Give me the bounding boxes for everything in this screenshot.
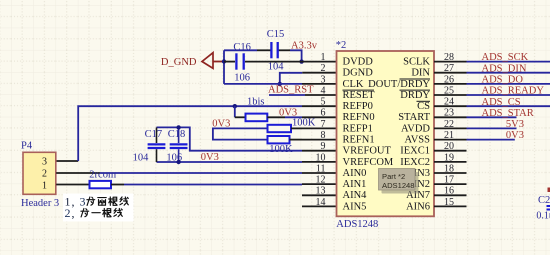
note white background (63, 194, 134, 222)
svg-text:ADS_CS: ADS_CS (482, 97, 521, 108)
svg-text:*2: *2 (336, 40, 347, 51)
svg-text:100K: 100K (292, 117, 316, 128)
svg-text:3: 3 (42, 156, 47, 167)
wire REFP0 net (pin5 to P4 pin3) (56, 160, 78, 162)
svg-text:2: 2 (42, 168, 47, 179)
svg-text:104: 104 (133, 152, 150, 163)
svg-text:Header 3: Header 3 (21, 198, 59, 209)
note text line1 line2 (65, 195, 129, 209)
svg-text:VREFOUT: VREFOUT (343, 146, 392, 157)
svg-text:104: 104 (268, 61, 285, 72)
node junction C18 top (176, 125, 180, 129)
pin 8 REFN1 (321, 130, 375, 146)
svg-text:C17: C17 (145, 129, 163, 140)
svg-text:1: 1 (321, 52, 326, 63)
wire net 0V3 (467, 139, 515, 141)
wire pin 27 stub (434, 72, 467, 74)
svg-text:A3.3v: A3.3v (291, 41, 318, 52)
pin 19 IEXC2 (400, 152, 454, 168)
svg-text:SCLK: SCLK (403, 57, 430, 68)
ground D_GND (161, 53, 224, 69)
svg-text:ADS1248: ADS1248 (336, 219, 378, 230)
wire pin 23 stub (434, 116, 467, 118)
node junction row5 (233, 104, 237, 108)
wire pin 15 stub (434, 205, 467, 207)
svg-text:CLK: CLK (343, 79, 364, 90)
pin 12 AIN1 (316, 175, 367, 191)
pin 1 DVDD (321, 52, 374, 68)
svg-text:0V3: 0V3 (506, 130, 524, 141)
svg-text:CS: CS (417, 101, 430, 112)
svg-text:AVDD: AVDD (401, 123, 430, 134)
svg-text:AIN6: AIN6 (406, 201, 430, 212)
svg-text:DGND: DGND (343, 68, 374, 79)
svg-text:7: 7 (321, 119, 326, 130)
wire R 1bis to pin6 (285, 116, 302, 118)
pin 4 RESET (321, 85, 376, 101)
svg-text:REFP0: REFP0 (343, 101, 373, 112)
wire net 5V3 (467, 127, 517, 129)
pin 20 IEXC1 (400, 141, 454, 157)
wire net ADS_STAR (467, 116, 517, 118)
wire net ADS_DIN (467, 72, 550, 74)
svg-text:3: 3 (321, 74, 326, 85)
svg-text:START: START (398, 112, 430, 123)
svg-text:ADS_SCK: ADS_SCK (482, 52, 529, 63)
wire pin 21 stub (434, 139, 467, 141)
wire pin 22 stub (434, 127, 467, 129)
resistor R 100K (pin7) (268, 117, 316, 132)
pin 25 DRDY (400, 85, 455, 101)
svg-text:5V3: 5V3 (506, 119, 524, 130)
pin 16 AIN7 (406, 186, 454, 202)
wire pin 18 stub (434, 172, 467, 174)
svg-text:13: 13 (316, 186, 326, 197)
wire net ADS_DO (467, 83, 550, 85)
svg-text:2: 2 (321, 63, 326, 74)
pin 7 REFP1 (321, 119, 373, 135)
svg-text:2: 2 (65, 206, 71, 220)
pin 9 VREFOUT (321, 141, 392, 157)
svg-text:P4: P4 (21, 141, 33, 152)
wire pin 26 stub (434, 83, 467, 85)
svg-text:0V3: 0V3 (212, 118, 230, 129)
svg-text:14: 14 (316, 197, 326, 208)
wire pin2 DGND jog (280, 73, 303, 84)
wire VREFOUT (pin9) to caps top (157, 127, 303, 150)
svg-text:C16: C16 (233, 42, 251, 53)
svg-text:REFP1: REFP1 (343, 123, 373, 134)
wire pin4 RESET (269, 94, 305, 96)
op-amp U ADS1248 body (337, 51, 435, 216)
capacitor C17 (133, 127, 166, 163)
svg-text:1: 1 (42, 180, 47, 191)
svg-text:AIN0: AIN0 (343, 168, 367, 179)
svg-text:0.1u: 0.1u (536, 211, 550, 222)
capacitor C15 (267, 29, 285, 73)
node junction pin3 wire (278, 82, 282, 86)
svg-text:0V3: 0V3 (201, 152, 219, 163)
svg-text:ADS1248: ADS1248 (382, 181, 415, 190)
svg-text:11: 11 (316, 163, 326, 174)
pin 18 AIN3 (406, 163, 454, 179)
wire ground vertical (223, 50, 225, 84)
pin 5 REFP0 (321, 97, 373, 113)
pin 11 AIN0 (316, 163, 367, 179)
svg-text:8: 8 (321, 130, 326, 141)
wire VREFCOM 0V3 (pin10) caps bottom (157, 161, 303, 163)
wire pin 17 stub (434, 183, 467, 185)
svg-text:IEXC1: IEXC1 (400, 146, 430, 157)
pin 14 AIN5 (316, 197, 367, 213)
svg-text:VREFCOM: VREFCOM (343, 157, 394, 168)
wire pin13 stub (302, 194, 337, 196)
svg-text:10: 10 (316, 152, 326, 163)
connector P4 (21, 141, 59, 209)
svg-text:AVSS: AVSS (405, 135, 431, 146)
svg-text:6: 6 (321, 108, 326, 119)
svg-text:REFN1: REFN1 (343, 135, 375, 146)
pin 10 VREFCOM (316, 152, 394, 168)
pin 23 START (398, 108, 454, 124)
svg-text:C18: C18 (168, 129, 186, 140)
svg-text:100K: 100K (269, 144, 293, 155)
pin 6 REFN0 (321, 108, 375, 124)
svg-text:4: 4 (321, 85, 326, 96)
svg-text:ADS_DIN: ADS_DIN (482, 63, 527, 74)
svg-text:106: 106 (234, 73, 250, 84)
wire pin 20 stub (434, 150, 467, 152)
svg-text:AIN1: AIN1 (343, 179, 367, 190)
svg-text:9: 9 (321, 141, 326, 152)
tooltip Part *2 ADS1248 (379, 169, 419, 194)
svg-text:ADS_DO: ADS_DO (482, 75, 524, 86)
svg-text:D_GND: D_GND (161, 57, 197, 68)
svg-text:IEXC2: IEXC2 (400, 157, 430, 168)
svg-text:ADS_RST: ADS_RST (268, 85, 314, 96)
svg-text:2rcom: 2rcom (89, 170, 116, 181)
node ground junction (222, 59, 226, 63)
wire row5 to R 1bis (234, 106, 236, 117)
pin 27 DIN (411, 63, 454, 79)
svg-text:REFN0: REFN0 (343, 112, 375, 123)
wire net ADS_SCK (467, 61, 550, 63)
pin 26 DOUT/DRDY (368, 74, 454, 90)
resistor 1bis (235, 96, 285, 121)
pin 13 AIN4 (316, 186, 368, 202)
svg-text:1bis: 1bis (247, 96, 265, 107)
svg-text:ADS_STAR: ADS_STAR (482, 108, 534, 119)
wire pin14 stub (302, 205, 337, 207)
pin 17 AIN2 (406, 175, 454, 191)
pin 24 CS (417, 97, 455, 113)
svg-text:DIN: DIN (411, 68, 430, 79)
svg-text:C21: C21 (538, 195, 550, 206)
wire 2rcom to AIN1 (pin12) (124, 184, 302, 186)
node A3.3v junction (299, 59, 303, 63)
wire pin 25 stub (434, 94, 467, 96)
pin 15 AIN6 (406, 197, 454, 213)
wire pin 28 stub (434, 61, 467, 63)
pin 21 AVSS (405, 130, 455, 146)
wire net ADS_READY (467, 94, 550, 96)
pin 3 CLK (321, 74, 364, 90)
pin 28 SCLK (403, 52, 454, 68)
wire pin3 CLK to ground (224, 83, 302, 85)
pin 22 AVDD (401, 119, 454, 135)
wire pin 16 stub (434, 194, 467, 196)
pin 2 DGND (321, 63, 374, 79)
wire net ADS_CS (467, 105, 550, 107)
svg-text:C15: C15 (267, 29, 285, 40)
node junction C18 bottom (176, 160, 180, 164)
svg-text:AIN5: AIN5 (343, 201, 367, 212)
wire pin 19 stub (434, 161, 467, 163)
wire U-link pins 7-8 (213, 128, 268, 139)
svg-text:DVDD: DVDD (343, 57, 374, 68)
svg-text:,: , (72, 206, 75, 220)
svg-text:3: 3 (80, 195, 86, 209)
svg-text:AIN4: AIN4 (343, 190, 368, 201)
svg-text:ADS_READY: ADS_READY (482, 86, 545, 97)
wire pin 24 stub (434, 105, 467, 107)
svg-text:DRDY: DRDY (400, 90, 430, 101)
resistor R 100K (pin8) (268, 136, 303, 155)
wire P4 pin2 to AIN0 (pin11) (56, 172, 100, 174)
svg-text:DOUT/DRDY: DOUT/DRDY (368, 79, 430, 90)
wire A3.3v top (through C15) (224, 49, 257, 51)
capacitor C16 (233, 42, 251, 83)
wire pin1 row (DVDD) (224, 61, 235, 63)
capacitor C18 (166, 127, 187, 163)
svg-text:RESET: RESET (343, 90, 376, 101)
svg-text:12: 12 (316, 175, 326, 186)
capacitor C21 (partial at edge) (536, 188, 550, 222)
svg-text:5: 5 (321, 97, 326, 108)
resistor 2rcom (P4 pin1) (56, 170, 124, 189)
